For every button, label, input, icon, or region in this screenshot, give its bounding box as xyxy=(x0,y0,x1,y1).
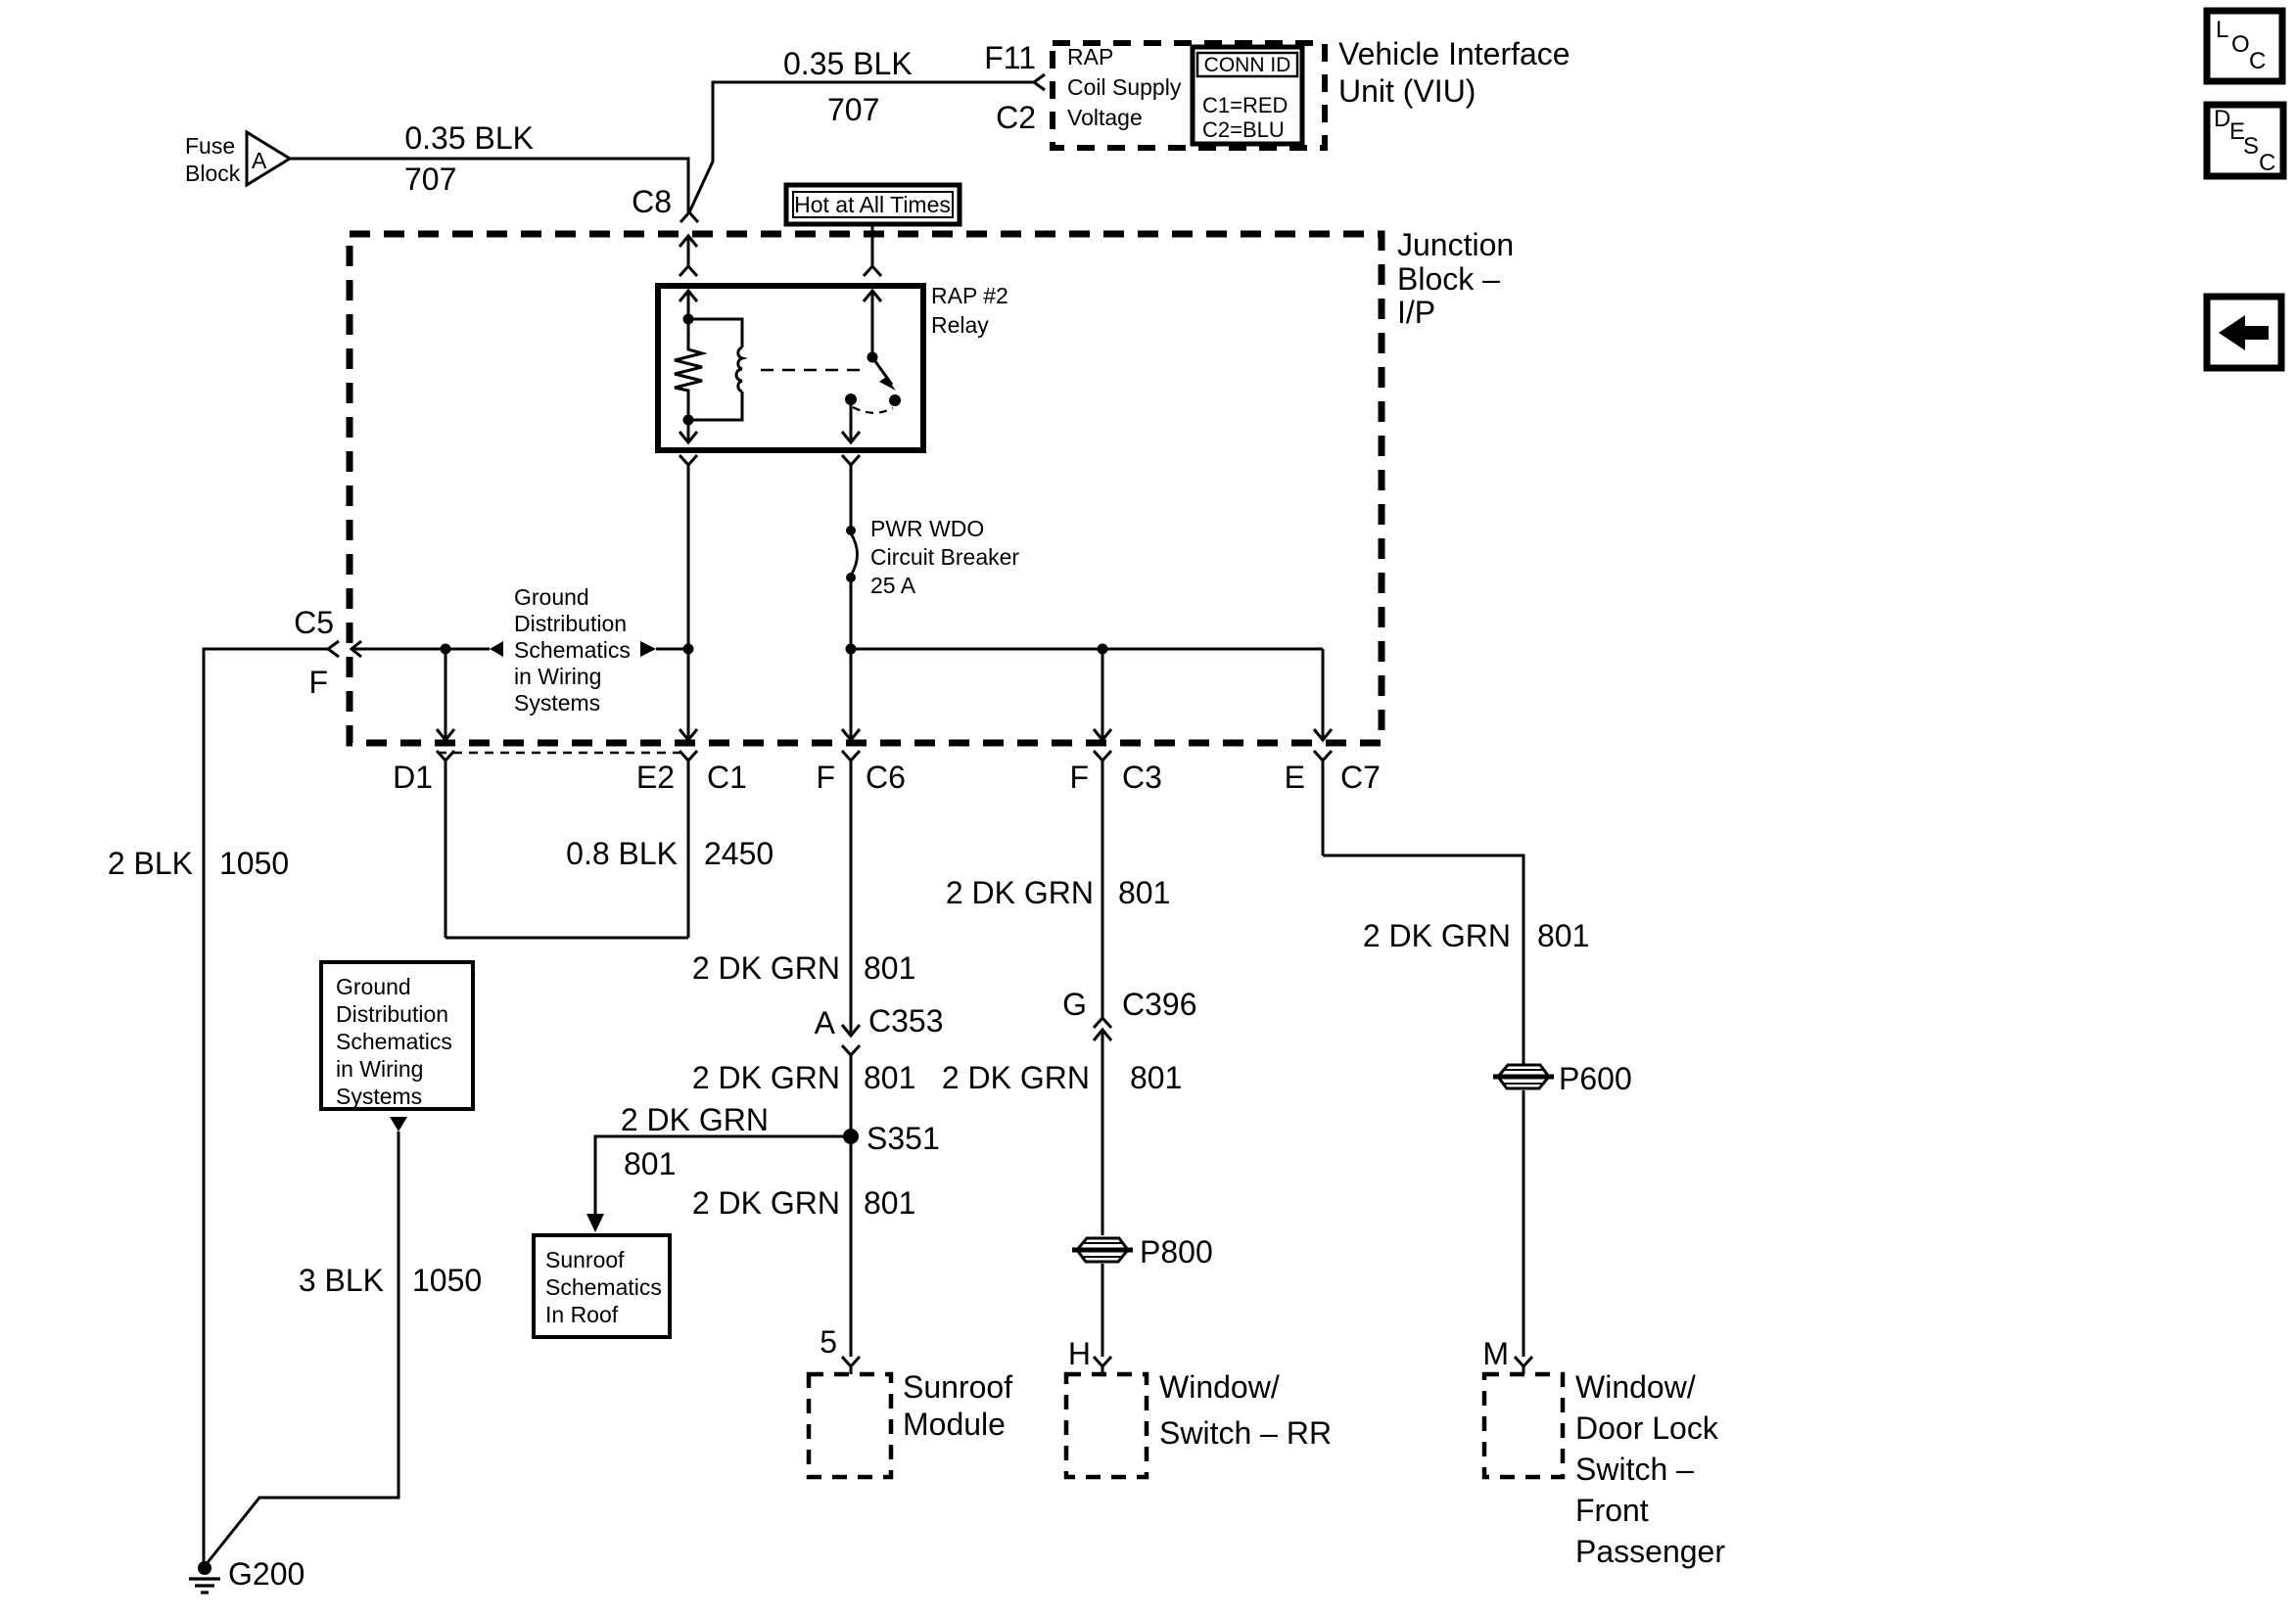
svg-text:0.35 BLK: 0.35 BLK xyxy=(783,46,913,81)
svg-text:Module: Module xyxy=(903,1407,1006,1442)
wire fuse block to C8 (0.35 BLK 707) xyxy=(290,159,688,212)
relay output arrow xyxy=(842,399,860,442)
relay common contact dot xyxy=(845,393,857,405)
svg-text:P800: P800 xyxy=(1140,1234,1213,1270)
connector C396 xyxy=(1094,1018,1111,1235)
svg-text:2 DK GRN: 2 DK GRN xyxy=(692,950,840,986)
svg-text:C2: C2 xyxy=(996,100,1036,135)
relay switch feed arrow (pin 2) xyxy=(864,291,881,357)
wire P800 to window switch RR xyxy=(1101,1264,1104,1357)
svg-text:F: F xyxy=(1069,760,1089,795)
svg-text:S351: S351 xyxy=(867,1121,940,1156)
svg-text:Relay: Relay xyxy=(931,312,989,338)
svg-text:I/P: I/P xyxy=(1397,295,1435,330)
DESC box xyxy=(2207,105,2283,176)
svg-text:801: 801 xyxy=(864,1060,915,1095)
svg-text:H: H xyxy=(1068,1336,1091,1371)
svg-text:O: O xyxy=(2231,31,2250,58)
connector C3 female fork below border xyxy=(1094,751,1111,1018)
svg-text:RAP #2: RAP #2 xyxy=(931,283,1008,308)
svg-text:Fuse: Fuse xyxy=(185,133,235,159)
svg-text:Window/: Window/ xyxy=(1575,1369,1696,1405)
relay coil feed arrow (pin 1) xyxy=(679,291,697,319)
ground distribution note box xyxy=(321,962,473,1109)
junction dot C3 branch xyxy=(1098,644,1108,655)
arrow into ground distribution box xyxy=(390,1117,407,1132)
window door lock switch dashed box xyxy=(1484,1374,1563,1477)
svg-text:801: 801 xyxy=(864,1185,915,1221)
wire loop D1 to E2 (0.8 BLK 2450) xyxy=(445,937,688,940)
relay switch arm with arrowhead xyxy=(872,357,892,385)
svg-text:2 DK GRN: 2 DK GRN xyxy=(946,875,1094,910)
svg-text:F: F xyxy=(308,665,328,700)
svg-text:A: A xyxy=(815,1005,836,1040)
wire C7 exit with arrow xyxy=(1314,649,1332,740)
svg-text:Circuit Breaker: Circuit Breaker xyxy=(870,544,1019,570)
svg-text:E2: E2 xyxy=(636,760,675,795)
svg-text:PWR WDO: PWR WDO xyxy=(870,516,984,541)
connector relay out pin 5 female fork xyxy=(842,455,860,531)
resistor (relay) xyxy=(675,319,702,420)
junction dot C6 branch xyxy=(846,644,857,655)
svg-text:In Roof: In Roof xyxy=(545,1302,619,1327)
svg-text:RAP: RAP xyxy=(1067,44,1113,69)
wire C5 to ground run (2 BLK 1050) xyxy=(204,649,328,1566)
svg-text:Switch – RR: Switch – RR xyxy=(1159,1415,1332,1451)
connector C6 female fork below border xyxy=(842,751,860,1033)
svg-text:Voltage: Voltage xyxy=(1067,105,1143,130)
svg-text:L: L xyxy=(2216,17,2228,43)
svg-text:Schematics: Schematics xyxy=(545,1274,662,1300)
svg-text:C1=RED: C1=RED xyxy=(1202,93,1288,117)
wire Hot at All Times to relay xyxy=(871,224,874,266)
relay contact dashed arc xyxy=(853,407,893,413)
svg-text:Block: Block xyxy=(185,161,241,186)
wire note to C1 branch xyxy=(656,648,688,651)
wire breaker to distribution node xyxy=(850,577,853,649)
right pointer triangle xyxy=(640,641,656,657)
svg-text:801: 801 xyxy=(1537,918,1589,953)
svg-text:C8: C8 xyxy=(632,184,672,219)
wire C7 run to front passenger xyxy=(1323,855,1523,1064)
connector F11/C2 female fork xyxy=(1034,74,1045,90)
svg-text:G200: G200 xyxy=(228,1556,305,1592)
svg-text:CONN ID: CONN ID xyxy=(1204,54,1291,76)
svg-text:C396: C396 xyxy=(1122,987,1197,1022)
svg-text:C1: C1 xyxy=(707,760,747,795)
svg-text:2450: 2450 xyxy=(704,836,773,871)
svg-text:Distribution: Distribution xyxy=(336,1001,448,1027)
svg-text:707: 707 xyxy=(404,162,456,197)
connector C8 male arrow into junction block xyxy=(679,236,697,266)
svg-text:Unit (VIU): Unit (VIU) xyxy=(1338,73,1476,109)
svg-text:3 BLK: 3 BLK xyxy=(299,1263,384,1298)
svg-text:Coil Supply: Coil Supply xyxy=(1067,74,1182,100)
fuse block symbol A xyxy=(247,132,290,185)
junction dot D1 branch xyxy=(441,644,451,655)
connector door lock switch female fork xyxy=(1515,1357,1532,1374)
relay node dot top xyxy=(683,314,694,325)
coil (relay) xyxy=(736,347,742,392)
svg-text:G: G xyxy=(1062,987,1087,1022)
svg-text:801: 801 xyxy=(864,950,915,986)
Hot at All Times box xyxy=(786,185,960,224)
relay node dot bottom xyxy=(683,415,694,426)
svg-text:C: C xyxy=(2249,48,2266,74)
svg-text:D: D xyxy=(2214,106,2230,132)
svg-text:Schematics: Schematics xyxy=(514,637,631,663)
Vehicle Interface Unit dashed box xyxy=(1053,43,1325,148)
svg-text:2 BLK: 2 BLK xyxy=(108,846,193,881)
svg-text:2 DK GRN: 2 DK GRN xyxy=(692,1060,840,1095)
svg-text:C7: C7 xyxy=(1340,760,1381,795)
connector relay pin 1 female fork xyxy=(679,266,697,276)
connector C353 xyxy=(842,1025,860,1357)
svg-text:Schematics: Schematics xyxy=(336,1029,452,1054)
svg-text:A: A xyxy=(252,148,267,173)
wire E2 exit with arrow xyxy=(679,649,697,740)
coil branch wires xyxy=(688,319,742,420)
svg-text:Ground: Ground xyxy=(336,974,411,999)
svg-text:C3: C3 xyxy=(1122,760,1162,795)
connector C5 female fork xyxy=(328,641,339,657)
svg-text:2 DK GRN: 2 DK GRN xyxy=(692,1185,840,1221)
svg-text:F: F xyxy=(816,760,835,795)
svg-text:C2=BLU: C2=BLU xyxy=(1202,117,1285,142)
svg-text:in Wiring: in Wiring xyxy=(336,1056,423,1082)
svg-text:707: 707 xyxy=(827,92,879,127)
connector E2 female fork below border xyxy=(679,751,697,938)
window switch RR dashed box xyxy=(1066,1374,1147,1477)
svg-text:Switch –: Switch – xyxy=(1575,1452,1694,1487)
svg-text:0.8 BLK: 0.8 BLK xyxy=(566,836,678,871)
connector C5 male arrow inside junction block xyxy=(351,641,445,657)
svg-text:25 A: 25 A xyxy=(870,573,916,598)
svg-text:Window/: Window/ xyxy=(1159,1369,1280,1405)
wire C8 to F11 (0.35 BLK 707 top) xyxy=(689,82,1034,212)
svg-text:Door Lock: Door Lock xyxy=(1575,1410,1719,1446)
sunroof module dashed box xyxy=(809,1374,891,1477)
svg-text:0.35 BLK: 0.35 BLK xyxy=(404,120,534,156)
connector sunroof module female fork xyxy=(842,1357,860,1374)
junction block I/P dashed box xyxy=(350,234,1382,743)
connector C8 female fork xyxy=(680,212,698,222)
svg-text:C353: C353 xyxy=(868,1003,944,1039)
svg-text:P600: P600 xyxy=(1559,1061,1632,1096)
svg-text:801: 801 xyxy=(1118,875,1170,910)
connector relay out pin 3 female fork xyxy=(679,455,697,649)
svg-text:Vehicle Interface: Vehicle Interface xyxy=(1338,36,1570,71)
back arrow box xyxy=(2207,297,2281,368)
svg-text:2 DK GRN: 2 DK GRN xyxy=(621,1102,769,1137)
svg-text:Sunroof: Sunroof xyxy=(903,1369,1012,1405)
sunroof schematics note box xyxy=(534,1235,670,1337)
svg-text:M: M xyxy=(1482,1336,1509,1371)
sunroof branch wire xyxy=(595,1136,851,1214)
svg-text:Hot at All Times: Hot at All Times xyxy=(794,192,951,217)
RAP #2 relay box xyxy=(658,286,923,450)
svg-text:Systems: Systems xyxy=(336,1084,422,1109)
svg-text:Distribution: Distribution xyxy=(514,611,627,636)
relay switch pivot dot xyxy=(867,352,878,363)
svg-text:2 DK GRN: 2 DK GRN xyxy=(942,1060,1090,1095)
svg-text:1050: 1050 xyxy=(412,1263,482,1298)
wire C6 exit with arrow xyxy=(842,649,860,740)
ground G200 xyxy=(198,1561,211,1575)
wire C3 exit with arrow xyxy=(1094,649,1111,740)
svg-text:in Wiring: in Wiring xyxy=(514,664,601,689)
svg-text:Junction: Junction xyxy=(1397,227,1514,262)
svg-text:Ground: Ground xyxy=(514,584,589,610)
thin dashed connector line D1-E2 xyxy=(438,752,688,755)
svg-text:C: C xyxy=(2259,150,2275,176)
distribution bus wire xyxy=(851,648,1323,651)
svg-text:C5: C5 xyxy=(294,605,334,640)
wire 3 BLK 1050 to G200 xyxy=(205,1132,398,1566)
svg-text:C6: C6 xyxy=(866,760,906,795)
svg-text:2 DK GRN: 2 DK GRN xyxy=(1363,918,1511,953)
svg-text:Block –: Block – xyxy=(1397,261,1500,297)
connector window switch RR female fork xyxy=(1094,1357,1111,1374)
wire P600 to door lock switch xyxy=(1523,1090,1525,1357)
svg-text:Sunroof: Sunroof xyxy=(545,1247,625,1272)
junction dot E2 branch xyxy=(683,644,694,655)
grommet P600 xyxy=(1493,1065,1554,1088)
splice S351 xyxy=(843,1129,859,1144)
left pointer triangle xyxy=(490,641,503,657)
LOC box xyxy=(2207,11,2282,81)
svg-text:Systems: Systems xyxy=(514,690,600,716)
connector D1 female fork below border xyxy=(437,751,454,938)
svg-text:801: 801 xyxy=(1130,1060,1182,1095)
svg-text:Passenger: Passenger xyxy=(1575,1534,1725,1569)
grommet P800 xyxy=(1072,1238,1133,1262)
svg-text:S: S xyxy=(2243,133,2259,160)
wire D1 exit with arrow xyxy=(437,649,454,740)
svg-text:F11: F11 xyxy=(984,40,1036,75)
svg-text:E: E xyxy=(1285,760,1305,795)
svg-text:1050: 1050 xyxy=(219,846,289,881)
svg-text:D1: D1 xyxy=(393,760,433,795)
arrow into sunroof schematics box xyxy=(586,1214,604,1232)
CONN ID table xyxy=(1193,47,1302,144)
svg-text:801: 801 xyxy=(624,1146,676,1181)
connector C7 female fork below border xyxy=(1314,751,1332,855)
wire to ground distribution note left xyxy=(445,648,490,651)
svg-text:Front: Front xyxy=(1575,1493,1649,1528)
relay coil output arrow xyxy=(679,420,697,442)
relay arm end contact dot xyxy=(889,394,901,406)
svg-text:5: 5 xyxy=(820,1324,837,1360)
connector relay pin 2 female fork xyxy=(864,266,881,276)
circuit breaker PWR WDO xyxy=(846,526,856,535)
relay switch control dashed line xyxy=(761,369,865,372)
